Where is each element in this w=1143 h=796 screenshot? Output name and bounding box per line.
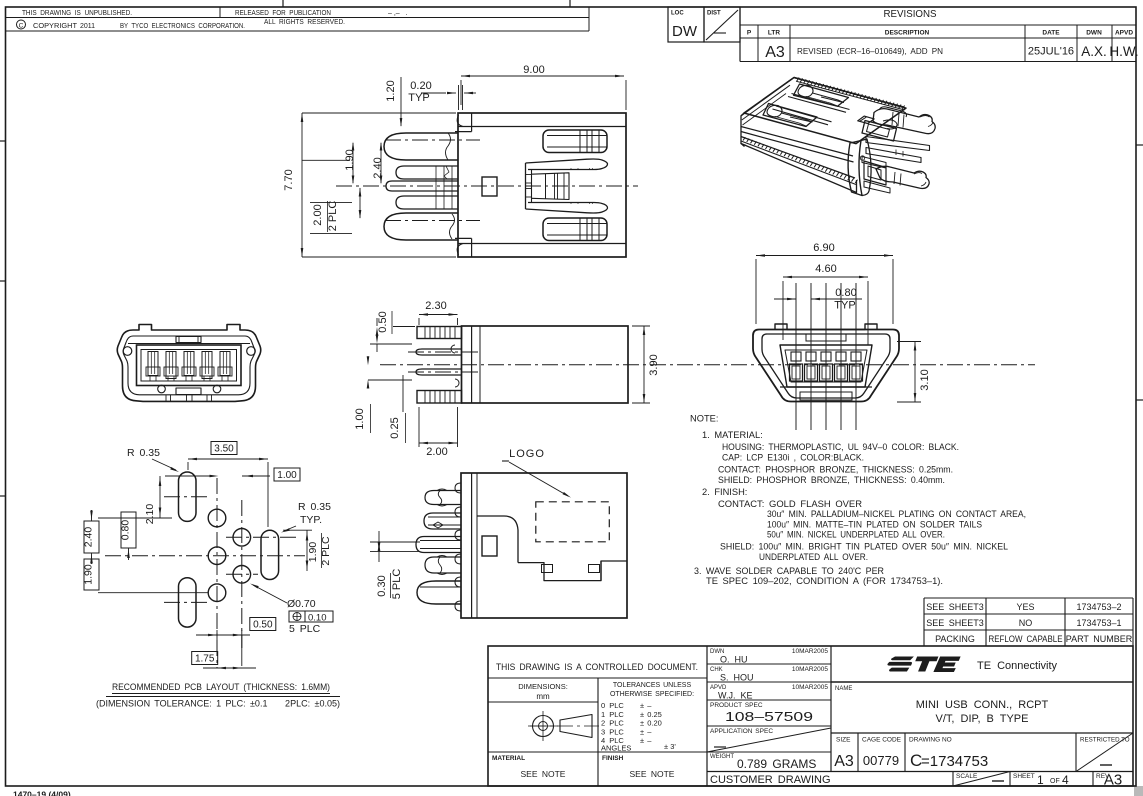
svg-text:H.W.: H.W. — [1109, 44, 1138, 59]
svg-text:PART NUMBER: PART NUMBER — [1066, 634, 1133, 644]
svg-text:CAP: LCP E130i , COLOR:BLACK.: CAP: LCP E130i , COLOR:BLACK. — [722, 452, 864, 462]
svg-text:CAGE CODE: CAGE CODE — [862, 737, 902, 744]
svg-text:COPYRIGHT: COPYRIGHT — [33, 23, 78, 30]
svg-text:108–57509: 108–57509 — [725, 709, 813, 724]
svg-text:REVISED (ECR–16–010649), ADD P: REVISED (ECR–16–010649), ADD PN — [797, 46, 943, 56]
svg-text:9.00: 9.00 — [523, 64, 544, 76]
svg-text:00779: 00779 — [863, 753, 899, 768]
svg-text:1734753–1: 1734753–1 — [1076, 618, 1121, 628]
svg-text:DW: DW — [672, 23, 698, 40]
svg-text:CONTACT: GOLD FLASH OVER: CONTACT: GOLD FLASH OVER — [718, 499, 862, 509]
svg-text:– ,– .: – ,– . — [388, 10, 408, 17]
svg-text:10MAR2005: 10MAR2005 — [792, 684, 829, 691]
svg-text:2.10: 2.10 — [144, 504, 156, 525]
svg-text:25JUL'16: 25JUL'16 — [1028, 46, 1074, 58]
svg-text:P: P — [747, 30, 752, 37]
svg-text:LOC: LOC — [671, 11, 684, 17]
svg-text:SCALE: SCALE — [956, 773, 978, 780]
svg-text:SEE NOTE: SEE NOTE — [521, 769, 566, 779]
svg-text:1734753–2: 1734753–2 — [1076, 602, 1121, 612]
svg-text:OF: OF — [1050, 778, 1060, 785]
svg-text:1.90: 1.90 — [83, 564, 95, 585]
svg-text:± 3': ± 3' — [664, 742, 676, 751]
svg-text:RELEASED FOR PUBLICATION: RELEASED FOR PUBLICATION — [235, 10, 331, 17]
svg-text:SEE NOTE: SEE NOTE — [630, 769, 675, 779]
svg-text:1.00: 1.00 — [277, 470, 297, 481]
svg-text:4: 4 — [1062, 773, 1069, 787]
svg-text:4.60: 4.60 — [815, 263, 836, 275]
svg-text:C: C — [19, 22, 24, 29]
svg-text:± –: ± – — [640, 701, 652, 710]
svg-text:NAME: NAME — [835, 686, 852, 692]
svg-text:2 PLC: 2 PLC — [601, 719, 624, 728]
svg-text:CUSTOMER DRAWING: CUSTOMER DRAWING — [710, 774, 831, 786]
svg-text:± –: ± – — [640, 736, 652, 745]
svg-text:TOLERANCES UNLESS: TOLERANCES UNLESS — [613, 682, 692, 689]
svg-text:SIZE: SIZE — [836, 737, 851, 744]
svg-text:LOGO: LOGO — [509, 448, 545, 460]
svg-text:3.50: 3.50 — [214, 444, 234, 455]
svg-text:TYP: TYP — [834, 300, 855, 312]
svg-text:0.10: 0.10 — [308, 613, 327, 624]
svg-text:mm: mm — [536, 692, 550, 701]
svg-text:SHIELD: 100u″ MIN. BRIGHT TIN: SHIELD: 100u″ MIN. BRIGHT TIN PLATED OVE… — [720, 542, 1008, 552]
svg-text:1.90: 1.90 — [344, 149, 356, 170]
svg-text:1 PLC: 1 PLC — [601, 710, 624, 719]
svg-text:DIST: DIST — [707, 11, 721, 17]
svg-text:UNDERPLATED ALL OVER.: UNDERPLATED ALL OVER. — [759, 552, 868, 562]
svg-text:FINISH: FINISH — [602, 755, 624, 762]
svg-text:3.10: 3.10 — [919, 369, 931, 390]
svg-text:0 PLC: 0 PLC — [601, 701, 624, 710]
svg-text:1.90: 1.90 — [307, 542, 319, 563]
svg-text:BY TYCO ELECTRONICS CORPORATIO: BY TYCO ELECTRONICS CORPORATION. — [120, 23, 245, 30]
svg-text:REFLOW CAPABLE: REFLOW CAPABLE — [989, 634, 1063, 644]
svg-text:2.40: 2.40 — [83, 527, 95, 548]
svg-text:0.80: 0.80 — [835, 287, 856, 299]
svg-text:THIS DRAWING IS UNPUBLISHED.: THIS DRAWING IS UNPUBLISHED. — [22, 10, 132, 17]
svg-text:0.80: 0.80 — [120, 520, 132, 541]
svg-text:R 0.35: R 0.35 — [127, 447, 160, 459]
svg-text:WEIGHT: WEIGHT — [710, 754, 734, 760]
svg-text:DESCRIPTION: DESCRIPTION — [885, 30, 930, 37]
svg-text:± 0.25: ± 0.25 — [640, 710, 662, 719]
svg-text:APPLICATION SPEC: APPLICATION SPEC — [710, 728, 773, 735]
svg-text:(DIMENSION TOLERANCE: 1 PLC: ±: (DIMENSION TOLERANCE: 1 PLC: ±0.1 2PLC: … — [96, 699, 340, 710]
svg-text:SEE SHEET3: SEE SHEET3 — [926, 618, 984, 628]
svg-text:2.30: 2.30 — [425, 300, 446, 312]
svg-text:Ø0.70: Ø0.70 — [287, 598, 316, 610]
svg-text:1.75: 1.75 — [195, 654, 215, 665]
svg-text:THIS DRAWING IS A CONTROLLED D: THIS DRAWING IS A CONTROLLED DOCUMENT. — [496, 662, 698, 672]
svg-text:RECOMMENDED PCB LAYOUT (THICKN: RECOMMENDED PCB LAYOUT (THICKNESS: 1.6MM… — [112, 682, 330, 693]
svg-text:± 0.20: ± 0.20 — [640, 719, 662, 728]
svg-text:OTHERWISE SPECIFIED:: OTHERWISE SPECIFIED: — [610, 691, 694, 698]
svg-text:2.40: 2.40 — [372, 157, 384, 178]
svg-text:=1734753: =1734753 — [921, 753, 988, 770]
svg-text:100u″ MIN. MATTE–TIN PLATED ON: 100u″ MIN. MATTE–TIN PLATED ON SOLDER TA… — [767, 519, 982, 529]
svg-text:3 PLC: 3 PLC — [601, 727, 624, 736]
svg-text:LTR: LTR — [768, 30, 780, 37]
svg-text:PRODUCT SPEC: PRODUCT SPEC — [710, 702, 763, 709]
svg-text:± –: ± – — [640, 727, 652, 736]
svg-text:50u″ MIN. NICKEL UNDERPLATED A: 50u″ MIN. NICKEL UNDERPLATED ALL OVER. — [767, 530, 945, 540]
svg-text:3. WAVE SOLDER CAPABLE TO 240: 3. WAVE SOLDER CAPABLE TO 240'C PER — [694, 566, 884, 576]
svg-text:A.X.: A.X. — [1081, 44, 1107, 59]
svg-text:1.00: 1.00 — [354, 408, 366, 429]
svg-text:REVISIONS: REVISIONS — [884, 8, 937, 20]
svg-text:S. HOU: S. HOU — [720, 673, 754, 683]
svg-text:O. HU: O. HU — [720, 655, 748, 665]
svg-text:PACKING: PACKING — [935, 634, 975, 644]
svg-text:5 PLC: 5 PLC — [391, 569, 403, 600]
svg-text:2011: 2011 — [80, 23, 95, 30]
svg-text:DIMENSIONS:: DIMENSIONS: — [518, 682, 568, 691]
svg-text:MATERIAL: MATERIAL — [492, 755, 525, 762]
svg-text:0.789 GRAMS: 0.789 GRAMS — [737, 757, 816, 771]
svg-text:W.J. KE: W.J. KE — [718, 691, 753, 701]
svg-text:DWN: DWN — [1086, 30, 1102, 37]
svg-text:6.90: 6.90 — [813, 242, 834, 254]
svg-text:YES: YES — [1016, 602, 1034, 612]
svg-text:1.20: 1.20 — [385, 80, 397, 101]
svg-text:2. FINISH:: 2. FINISH: — [702, 487, 747, 497]
svg-text:0.50: 0.50 — [377, 311, 389, 332]
svg-text:R 0.35: R 0.35 — [298, 501, 331, 513]
svg-text:2.00: 2.00 — [312, 204, 324, 225]
svg-text:TE Connectivity: TE Connectivity — [977, 660, 1058, 672]
svg-text:1: 1 — [1037, 773, 1044, 787]
svg-text:0.30: 0.30 — [376, 575, 388, 596]
svg-text:TYP.: TYP. — [300, 514, 322, 526]
svg-text:ALL RIGHTS RESERVED.: ALL RIGHTS RESERVED. — [264, 19, 345, 26]
svg-text:2.00: 2.00 — [426, 446, 447, 458]
svg-text:0.25: 0.25 — [389, 417, 401, 438]
svg-text:10MAR2005: 10MAR2005 — [792, 666, 829, 673]
svg-text:1470–19 (4/09): 1470–19 (4/09) — [13, 790, 71, 796]
svg-text:DATE: DATE — [1042, 30, 1060, 37]
svg-text:DRAWING NO: DRAWING NO — [909, 737, 952, 744]
svg-text:A3: A3 — [765, 44, 785, 61]
svg-text:ANGLES: ANGLES — [601, 744, 631, 753]
svg-text:CONTACT: PHOSPHOR BRONZE, THIC: CONTACT: PHOSPHOR BRONZE, THICKNESS: 0.2… — [718, 465, 953, 475]
svg-text:HOUSING: THERMOPLASTIC, UL 94V: HOUSING: THERMOPLASTIC, UL 94V–0 COLOR: … — [722, 442, 959, 452]
svg-text:7.70: 7.70 — [283, 169, 295, 190]
svg-text:MINI USB CONN., RCPT: MINI USB CONN., RCPT — [916, 699, 1049, 711]
svg-text:NOTE:: NOTE: — [690, 414, 718, 424]
svg-text:A3: A3 — [834, 753, 854, 770]
svg-text:APVD: APVD — [1115, 30, 1133, 37]
svg-text:TE SPEC 109–202, CONDITION A (: TE SPEC 109–202, CONDITION A (FOR 173475… — [706, 576, 943, 586]
svg-text:SHEET: SHEET — [1013, 773, 1035, 780]
svg-text:SEE SHEET3: SEE SHEET3 — [926, 602, 984, 612]
svg-text:30u″ MIN. PALLADIUM–NICKEL PLA: 30u″ MIN. PALLADIUM–NICKEL PLATING ON CO… — [767, 509, 1026, 519]
svg-text:SHIELD: PHOSPHOR BRONZE, THICK: SHIELD: PHOSPHOR BRONZE, THICKNESS: 0.40… — [718, 475, 945, 485]
svg-text:V/T, DIP, B TYPE: V/T, DIP, B TYPE — [936, 713, 1029, 725]
svg-text:0.20: 0.20 — [410, 80, 431, 92]
svg-text:NO: NO — [1019, 618, 1033, 628]
svg-text:1. MATERIAL:: 1. MATERIAL: — [702, 430, 763, 440]
svg-text:0.50: 0.50 — [253, 620, 273, 631]
svg-text:5 PLC: 5 PLC — [289, 623, 321, 635]
svg-text:2 PLC: 2 PLC — [327, 201, 339, 232]
svg-text:3.90: 3.90 — [648, 354, 660, 375]
svg-text:TYP: TYP — [408, 92, 429, 104]
svg-text:10MAR2005: 10MAR2005 — [792, 648, 829, 655]
svg-text:A3: A3 — [1104, 772, 1122, 789]
